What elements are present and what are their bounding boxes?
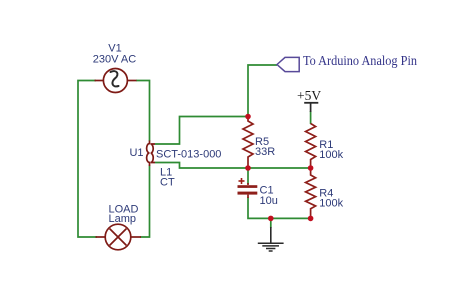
svg-text:+5V: +5V bbox=[297, 88, 321, 103]
wire left loop: V1 left to lamp left bbox=[78, 81, 97, 238]
svg-text:10u: 10u bbox=[260, 195, 278, 207]
connector To Arduino Analog Pin bbox=[277, 53, 417, 72]
svg-text:100k: 100k bbox=[319, 198, 343, 210]
svg-text:U1: U1 bbox=[129, 147, 143, 159]
wire ground stem bbox=[270, 218, 272, 228]
wire transformer primary bottom down to lamp right bbox=[140, 166, 150, 238]
junction node at R5 top bbox=[245, 114, 251, 120]
AC source V1 bbox=[93, 43, 137, 93]
wire transformer secondary top to node at R5 top bbox=[155, 117, 248, 145]
svg-text:Lamp: Lamp bbox=[109, 213, 137, 225]
wire C1 top stem bbox=[247, 168, 249, 184]
svg-text:CT: CT bbox=[160, 177, 175, 189]
resistor R5 33R bbox=[243, 117, 275, 169]
junction node R4 bottom bbox=[308, 216, 314, 222]
power +5V symbol bbox=[297, 88, 321, 112]
capacitor C1 10u (polarized) bbox=[238, 178, 278, 207]
wire C1 bottom to ground rail bbox=[248, 197, 311, 218]
junction node R1/R4 mid rail bbox=[308, 165, 314, 171]
svg-text:33R: 33R bbox=[255, 146, 275, 158]
svg-text:230V AC: 230V AC bbox=[93, 54, 136, 66]
wire node R5 top up to connector bbox=[248, 65, 277, 117]
svg-text:To Arduino Analog Pin: To Arduino Analog Pin bbox=[303, 53, 417, 68]
wire V1 right down to transformer primary top bbox=[136, 81, 150, 142]
ground bbox=[258, 227, 284, 251]
transformer U1 SCT-013-000 bbox=[129, 141, 221, 189]
resistor R1 100k bbox=[306, 124, 344, 169]
resistor R4 100k bbox=[306, 168, 344, 218]
svg-text:SCT-013-000: SCT-013-000 bbox=[156, 149, 221, 161]
wire transformer secondary bottom to mid rail bbox=[155, 163, 311, 169]
lamp LOAD bbox=[96, 203, 142, 250]
svg-text:100k: 100k bbox=[319, 149, 343, 161]
wire +5V stem to R1 bbox=[310, 111, 312, 124]
junction node R5 bottom / C1 top bbox=[245, 165, 251, 171]
junction node ground tap bbox=[268, 216, 274, 222]
